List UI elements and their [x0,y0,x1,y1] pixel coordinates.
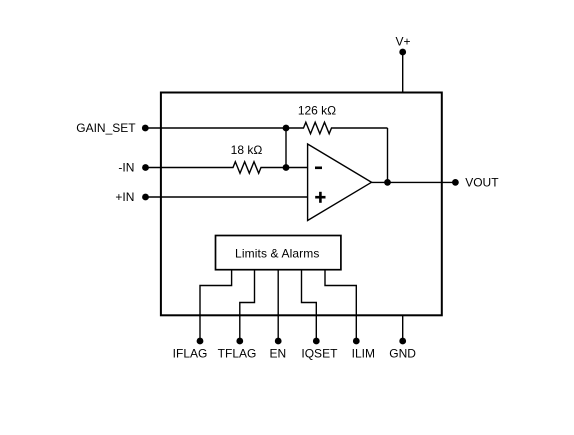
svg-text:EN: EN [269,347,286,361]
pin EN terminal dot [275,338,282,345]
wire GAIN_SET to node A [145,127,286,129]
svg-text:GND: GND [389,347,416,361]
svg-text:+IN: +IN [115,190,134,204]
svg-text:Limits & Alarms: Limits & Alarms [235,246,319,260]
svg-text:TFLAG: TFLAG [218,347,257,361]
pin GAIN_SET terminal dot [142,125,149,132]
op-amp inverting input minus sign [315,167,322,170]
wire block to IQSET pin [302,270,317,341]
svg-text:V+: V+ [395,35,410,49]
svg-text:VOUT: VOUT [465,175,499,189]
pin +IN terminal dot [142,194,149,201]
pin ILIM terminal dot [353,338,360,345]
svg-text:-IN: -IN [118,161,134,175]
wire feedback down to output node [387,128,389,182]
IC outer box U1 [161,93,442,316]
svg-text:ILIM: ILIM [352,347,375,361]
pin VOUT terminal dot [452,179,459,186]
svg-text:IQSET: IQSET [301,347,338,361]
wire block to EN pin [277,270,279,341]
svg-text:GAIN_SET: GAIN_SET [76,121,136,135]
svg-text:18 kΩ: 18 kΩ [231,143,263,157]
wire V+ to box top [402,52,404,94]
node A junction dot (GAIN_SET / feedback) [283,125,290,132]
wire op-amp output to VOUT [372,181,456,183]
resistor R2 18 kOhm with wires [146,162,308,174]
pin IFLAG terminal dot [197,338,204,345]
pin TFLAG terminal dot [236,338,243,345]
op-amp non-inverting input plus sign [315,192,325,203]
wire node A down to inverting input node [285,128,287,168]
wire block to ILIM pin [325,270,356,341]
op-amp U2 triangle [308,144,372,221]
pin -IN terminal dot [142,164,149,171]
pin IQSET terminal dot [313,338,320,345]
svg-text:126 kΩ: 126 kΩ [298,104,336,118]
Limits & Alarms block [216,236,341,270]
node B junction dot (inverting input) [283,164,290,171]
resistor R1 126 kOhm [286,122,388,134]
wire box bottom to GND pin [402,315,404,341]
wire block to IFLAG pin [200,270,232,341]
pin GND terminal dot [399,338,406,345]
wire +IN to op-amp [146,196,308,198]
pin V+ terminal dot [399,49,406,56]
node C junction dot (output / feedback) [384,179,391,186]
wire block to TFLAG pin [240,270,255,341]
svg-text:IFLAG: IFLAG [173,347,208,361]
